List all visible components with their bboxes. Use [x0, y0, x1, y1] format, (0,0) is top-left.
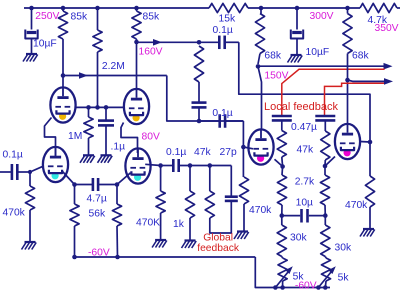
svg-text:300V: 300V — [310, 11, 334, 22]
svg-text:1k: 1k — [173, 219, 185, 230]
svg-text:150V: 150V — [264, 70, 288, 81]
svg-text:-60V: -60V — [88, 248, 110, 259]
svg-text:470K: 470K — [136, 217, 160, 228]
svg-text:4.7µ: 4.7µ — [87, 193, 107, 204]
svg-text:470k: 470k — [345, 200, 368, 211]
svg-text:2.7k: 2.7k — [295, 177, 315, 188]
svg-text:Local feedback: Local feedback — [264, 101, 338, 113]
svg-text:feedback: feedback — [197, 243, 240, 254]
svg-text:85k: 85k — [71, 12, 88, 23]
svg-text:5k: 5k — [338, 272, 350, 283]
svg-text:10µ: 10µ — [296, 197, 313, 208]
svg-text:160V: 160V — [139, 46, 163, 57]
svg-text:10µF: 10µF — [33, 38, 57, 49]
svg-text:15k: 15k — [219, 13, 236, 24]
svg-text:0.1µ: 0.1µ — [166, 147, 186, 158]
svg-text:2.2M: 2.2M — [102, 61, 125, 72]
svg-text:-60V: -60V — [295, 280, 317, 291]
svg-text:80V: 80V — [142, 132, 160, 143]
svg-text:85k: 85k — [143, 12, 160, 23]
svg-text:68k: 68k — [352, 50, 369, 61]
svg-text:470k: 470k — [3, 207, 26, 218]
svg-text:68k: 68k — [264, 51, 281, 62]
svg-text:250V: 250V — [35, 11, 59, 22]
svg-text:0.47µ: 0.47µ — [291, 122, 317, 133]
svg-text:350V: 350V — [375, 23, 399, 34]
svg-text:56k: 56k — [89, 208, 106, 219]
svg-text:.1µ: .1µ — [111, 141, 126, 152]
svg-text:47k: 47k — [194, 147, 211, 158]
svg-text:30k: 30k — [290, 233, 307, 244]
svg-text:0.1µ: 0.1µ — [3, 149, 23, 160]
svg-text:0.1µ: 0.1µ — [213, 25, 233, 36]
svg-text:47k: 47k — [297, 144, 314, 155]
svg-text:470k: 470k — [249, 205, 272, 216]
svg-text:0.1µ: 0.1µ — [212, 108, 232, 119]
svg-text:Global: Global — [203, 233, 233, 244]
svg-text:10µF: 10µF — [306, 47, 330, 58]
svg-text:30k: 30k — [335, 243, 352, 254]
svg-text:27p: 27p — [220, 147, 237, 158]
svg-text:1M: 1M — [68, 131, 82, 142]
